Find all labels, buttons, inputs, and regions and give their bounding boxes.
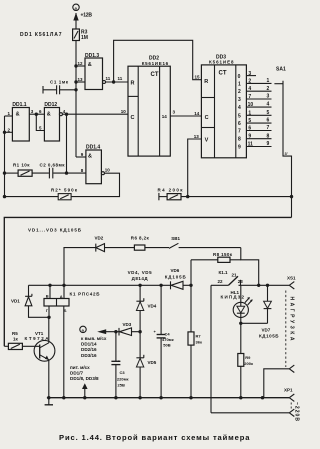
svg-text:КД105Б: КД105Б <box>165 274 187 279</box>
svg-text:C: C <box>205 115 209 121</box>
svg-text:23: 23 <box>238 279 244 284</box>
svg-text:1: 1 <box>238 81 241 87</box>
svg-text:VD3: VD3 <box>123 322 132 327</box>
svg-text:R5: R5 <box>12 331 18 336</box>
svg-text:DD2/16: DD2/16 <box>81 347 97 352</box>
svg-text:5: 5 <box>267 110 270 116</box>
svg-text:1к: 1к <box>13 337 19 342</box>
svg-text:Д814Д: Д814Д <box>132 276 149 281</box>
svg-text:DD1/14: DD1/14 <box>81 342 97 347</box>
svg-text:3: 3 <box>238 97 241 103</box>
svg-text:14: 14 <box>194 111 200 116</box>
svg-text:4: 4 <box>267 102 270 108</box>
svg-text:&: & <box>16 112 20 118</box>
svg-text:R8 150к: R8 150к <box>213 252 233 257</box>
svg-text:CT: CT <box>219 71 227 77</box>
svg-text:6: 6 <box>267 118 270 124</box>
svg-text:9: 9 <box>267 141 270 147</box>
svg-text:10: 10 <box>105 167 111 172</box>
svg-text:КД105Б: КД105Б <box>259 334 279 339</box>
svg-text:22: 22 <box>218 279 224 284</box>
svg-text:470мк: 470мк <box>162 337 174 342</box>
svg-text:13: 13 <box>194 134 200 139</box>
svg-text:VD7: VD7 <box>262 328 271 333</box>
svg-text:4: 4 <box>238 105 241 111</box>
svg-text:SB1: SB1 <box>171 236 180 241</box>
svg-text:VD6: VD6 <box>171 268 180 273</box>
svg-text:DD1 К561ЛА7: DD1 К561ЛА7 <box>20 32 62 38</box>
svg-text:C4: C4 <box>165 332 171 337</box>
svg-text:R4 200к: R4 200к <box>158 188 184 193</box>
svg-text:DD3/16: DD3/16 <box>81 353 97 358</box>
svg-text:3': 3' <box>285 151 288 156</box>
svg-text:VD5: VD5 <box>148 360 157 365</box>
svg-text:R: R <box>204 79 208 85</box>
svg-text:DD1/7: DD1/7 <box>70 371 83 376</box>
svg-text:11: 11 <box>106 76 111 81</box>
svg-text:КИПД32: КИПД32 <box>221 295 245 300</box>
svg-text:К561ИЕ8: К561ИЕ8 <box>209 60 234 65</box>
svg-text:14: 14 <box>162 114 168 119</box>
svg-text:DD1.4: DD1.4 <box>86 145 100 151</box>
svg-text:VD2: VD2 <box>95 236 104 241</box>
svg-text:C1 1мк: C1 1мк <box>50 80 69 85</box>
svg-text:+12В: +12В <box>81 13 93 19</box>
svg-text:13: 13 <box>78 77 84 82</box>
svg-text:8: 8 <box>267 133 270 139</box>
svg-text:&: & <box>47 112 51 118</box>
svg-text:3: 3 <box>267 94 270 100</box>
svg-text:220мк: 220мк <box>117 376 129 381</box>
svg-text:R1 10к: R1 10к <box>13 162 30 167</box>
svg-text:К561ИЕ16: К561ИЕ16 <box>142 61 169 66</box>
svg-text:К1.1: К1.1 <box>219 270 228 275</box>
svg-text:~220В: ~220В <box>293 402 299 421</box>
svg-text:&: & <box>88 62 92 68</box>
svg-text:R9: R9 <box>245 355 251 360</box>
svg-text:50В: 50В <box>163 343 170 348</box>
svg-text:DD1/8, DD3/8: DD1/8, DD3/8 <box>70 376 99 381</box>
svg-text:200к: 200к <box>244 361 253 366</box>
svg-text:к выв. м/сх: к выв. м/сх <box>81 336 107 341</box>
svg-text:VD4, VD5: VD4, VD5 <box>128 270 152 275</box>
svg-text:5: 5 <box>238 113 241 119</box>
svg-text:15: 15 <box>195 75 201 80</box>
svg-text:C3: C3 <box>120 370 126 375</box>
svg-text:SA1: SA1 <box>276 67 286 73</box>
svg-text:10: 10 <box>121 109 127 114</box>
svg-text:VD4: VD4 <box>148 304 157 309</box>
svg-text:1М: 1М <box>81 35 88 41</box>
svg-text:0: 0 <box>238 74 241 80</box>
svg-text:VD1: VD1 <box>11 298 20 303</box>
svg-text:R: R <box>131 80 135 86</box>
svg-text:C: C <box>131 115 135 121</box>
svg-text:25В: 25В <box>118 382 125 387</box>
svg-text:36к: 36к <box>196 340 202 345</box>
svg-text:12: 12 <box>78 61 84 66</box>
svg-text:C2 0,68мк: C2 0,68мк <box>40 162 66 167</box>
svg-text:7: 7 <box>267 125 270 131</box>
svg-text:ХР1: ХР1 <box>284 388 293 393</box>
svg-text:VD1...VD3 КД105Б: VD1...VD3 КД105Б <box>28 228 82 233</box>
svg-text:7: 7 <box>238 129 241 135</box>
svg-text:&: & <box>88 153 92 159</box>
svg-text:В: В <box>46 294 49 299</box>
svg-text:8: 8 <box>238 137 241 143</box>
svg-text:V: V <box>205 138 209 144</box>
svg-text:DD12: DD12 <box>44 102 57 108</box>
svg-text:ХS1: ХS1 <box>287 276 296 281</box>
svg-text:пит. м/сх: пит. м/сх <box>70 365 90 370</box>
svg-text:R7: R7 <box>196 334 202 339</box>
svg-text:DD1.3: DD1.3 <box>85 53 99 59</box>
svg-text:21: 21 <box>232 272 238 277</box>
svg-text:1: 1 <box>267 78 270 84</box>
svg-text:R6 8,2к: R6 8,2к <box>131 236 150 241</box>
svg-text:9: 9 <box>238 145 241 151</box>
svg-text:6: 6 <box>238 121 241 127</box>
svg-text:А: А <box>60 294 63 299</box>
svg-text:DD1.1: DD1.1 <box>12 102 26 108</box>
svg-text:К1 РПС42Б: К1 РПС42Б <box>70 292 101 297</box>
svg-text:CT: CT <box>151 72 159 78</box>
svg-text:2: 2 <box>238 89 241 95</box>
svg-text:Рис. 1.44. Второй вариант схем: Рис. 1.44. Второй вариант схемы таймера <box>59 433 250 442</box>
svg-text:2: 2 <box>267 86 270 92</box>
svg-text:11: 11 <box>118 76 123 81</box>
